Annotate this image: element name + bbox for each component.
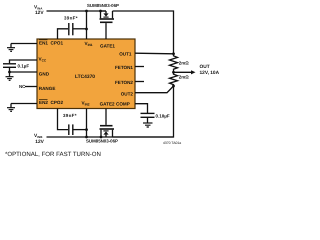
svg-text:2mΩ: 2mΩ — [179, 74, 190, 79]
wire FETON1 stub — [135, 66, 144, 68]
ground under C3 — [6, 72, 14, 80]
wire C1 to VIN1 node — [74, 28, 87, 30]
node junction dot OUT2 — [172, 85, 175, 88]
node junction dot C2/VIN2 — [85, 128, 88, 131]
wire OUT2 pin — [135, 86, 174, 93]
node junction dot VINB/VIN2 — [85, 136, 88, 139]
svg-text:SUM85N03-06P: SUM85N03-06P — [87, 3, 119, 8]
svg-text:CPO2: CPO2 — [51, 100, 64, 105]
wire VINA rail — [47, 10, 107, 12]
wire EN1 to ground — [11, 43, 37, 45]
svg-text:39nF*: 39nF* — [64, 15, 78, 20]
svg-text:GATE2: GATE2 — [100, 102, 115, 107]
wire C3 to GND pin — [10, 67, 38, 72]
svg-text:FETON1: FETON1 — [115, 65, 133, 70]
ground under C4 — [143, 123, 153, 127]
wire VCC to C3 — [10, 60, 38, 63]
wire EN2 to ground — [11, 103, 37, 105]
wire OUT1 pin — [135, 52, 174, 55]
node junction dot C1/VIN1 — [85, 28, 88, 31]
svg-text:OUT2: OUT2 — [121, 92, 134, 97]
svg-text:OUT: OUT — [200, 64, 210, 70]
transistor Q1 SUM85N03-06P — [87, 3, 119, 39]
pin EN2 label — [39, 99, 48, 105]
capacitor C1 39nF — [64, 15, 78, 35]
capacitor C2 39nF — [63, 113, 77, 135]
svg-text:LTC4370: LTC4370 — [75, 74, 95, 80]
wire C2 to VIN2 — [74, 129, 87, 131]
node junction dot C3/GND — [8, 71, 11, 74]
wire VIN1 drop — [86, 11, 88, 39]
svg-text:COMP: COMP — [116, 102, 130, 107]
wire C4 to ground — [147, 117, 149, 123]
svg-text:OUT1: OUT1 — [119, 52, 132, 57]
pin EN1 label — [39, 40, 48, 46]
wire OUT arrow — [174, 70, 196, 74]
wire VIN2 drop — [86, 109, 88, 138]
op-amp U1 LTC4370 controller body — [37, 39, 135, 109]
ground at EN1 — [7, 44, 15, 52]
svg-text:SUM85N03-06P: SUM85N03-06P — [86, 139, 118, 144]
node VINB supply label — [34, 133, 45, 145]
svg-text:2mΩ: 2mΩ — [179, 60, 190, 65]
wire FETON2 stub — [135, 81, 144, 83]
svg-text:GATE1: GATE1 — [100, 44, 115, 49]
svg-text:39nF*: 39nF* — [63, 113, 77, 118]
svg-text:12V, 10A: 12V, 10A — [200, 70, 220, 76]
wire Q1 drain to OUT1 node — [113, 11, 174, 54]
wire CPO2 to C2 — [58, 109, 69, 130]
resistor R1 2mOhm — [170, 54, 190, 73]
node VINA supply label — [34, 4, 44, 15]
svg-text:12V: 12V — [35, 10, 44, 16]
wire VINB rail — [47, 136, 174, 138]
node junction dot VINA/Q1 — [99, 10, 102, 13]
capacitor C4 0.18uF — [141, 113, 170, 118]
svg-text:*OPTIONAL, FOR FAST TURN-ON: *OPTIONAL, FOR FAST TURN-ON — [5, 151, 101, 158]
wire NC to RANGE — [25, 86, 37, 88]
svg-text:RANGE: RANGE — [39, 86, 56, 91]
svg-text:0.18µF: 0.18µF — [156, 114, 170, 119]
svg-text:12V: 12V — [35, 139, 44, 145]
svg-text:FETON2: FETON2 — [115, 80, 133, 85]
transistor Q2 SUM85N03-06P — [86, 109, 118, 144]
capacitor C3 0.1uF — [3, 63, 29, 68]
svg-text:EN2: EN2 — [39, 100, 48, 105]
node junction dot VINB/Q2 — [100, 136, 103, 139]
wire OUT2 node down to Q2 — [113, 86, 174, 137]
svg-text:4370 TA01a: 4370 TA01a — [163, 141, 181, 145]
ground at EN2 — [7, 104, 15, 112]
svg-text:0.1µF: 0.1µF — [18, 63, 30, 68]
node junction dot OUT — [172, 71, 175, 74]
svg-text:CPO1: CPO1 — [51, 41, 64, 46]
resistor R2 2mOhm — [170, 72, 190, 86]
node junction dot VINA/VIN1 — [85, 10, 88, 13]
wire COMP to C4 — [135, 104, 148, 113]
node junction dot OUT1 — [172, 52, 175, 55]
wire CPO1 to C1 — [58, 29, 69, 39]
svg-text:GND: GND — [39, 72, 50, 77]
node OUT label — [200, 64, 220, 76]
svg-text:EN1: EN1 — [39, 41, 48, 46]
